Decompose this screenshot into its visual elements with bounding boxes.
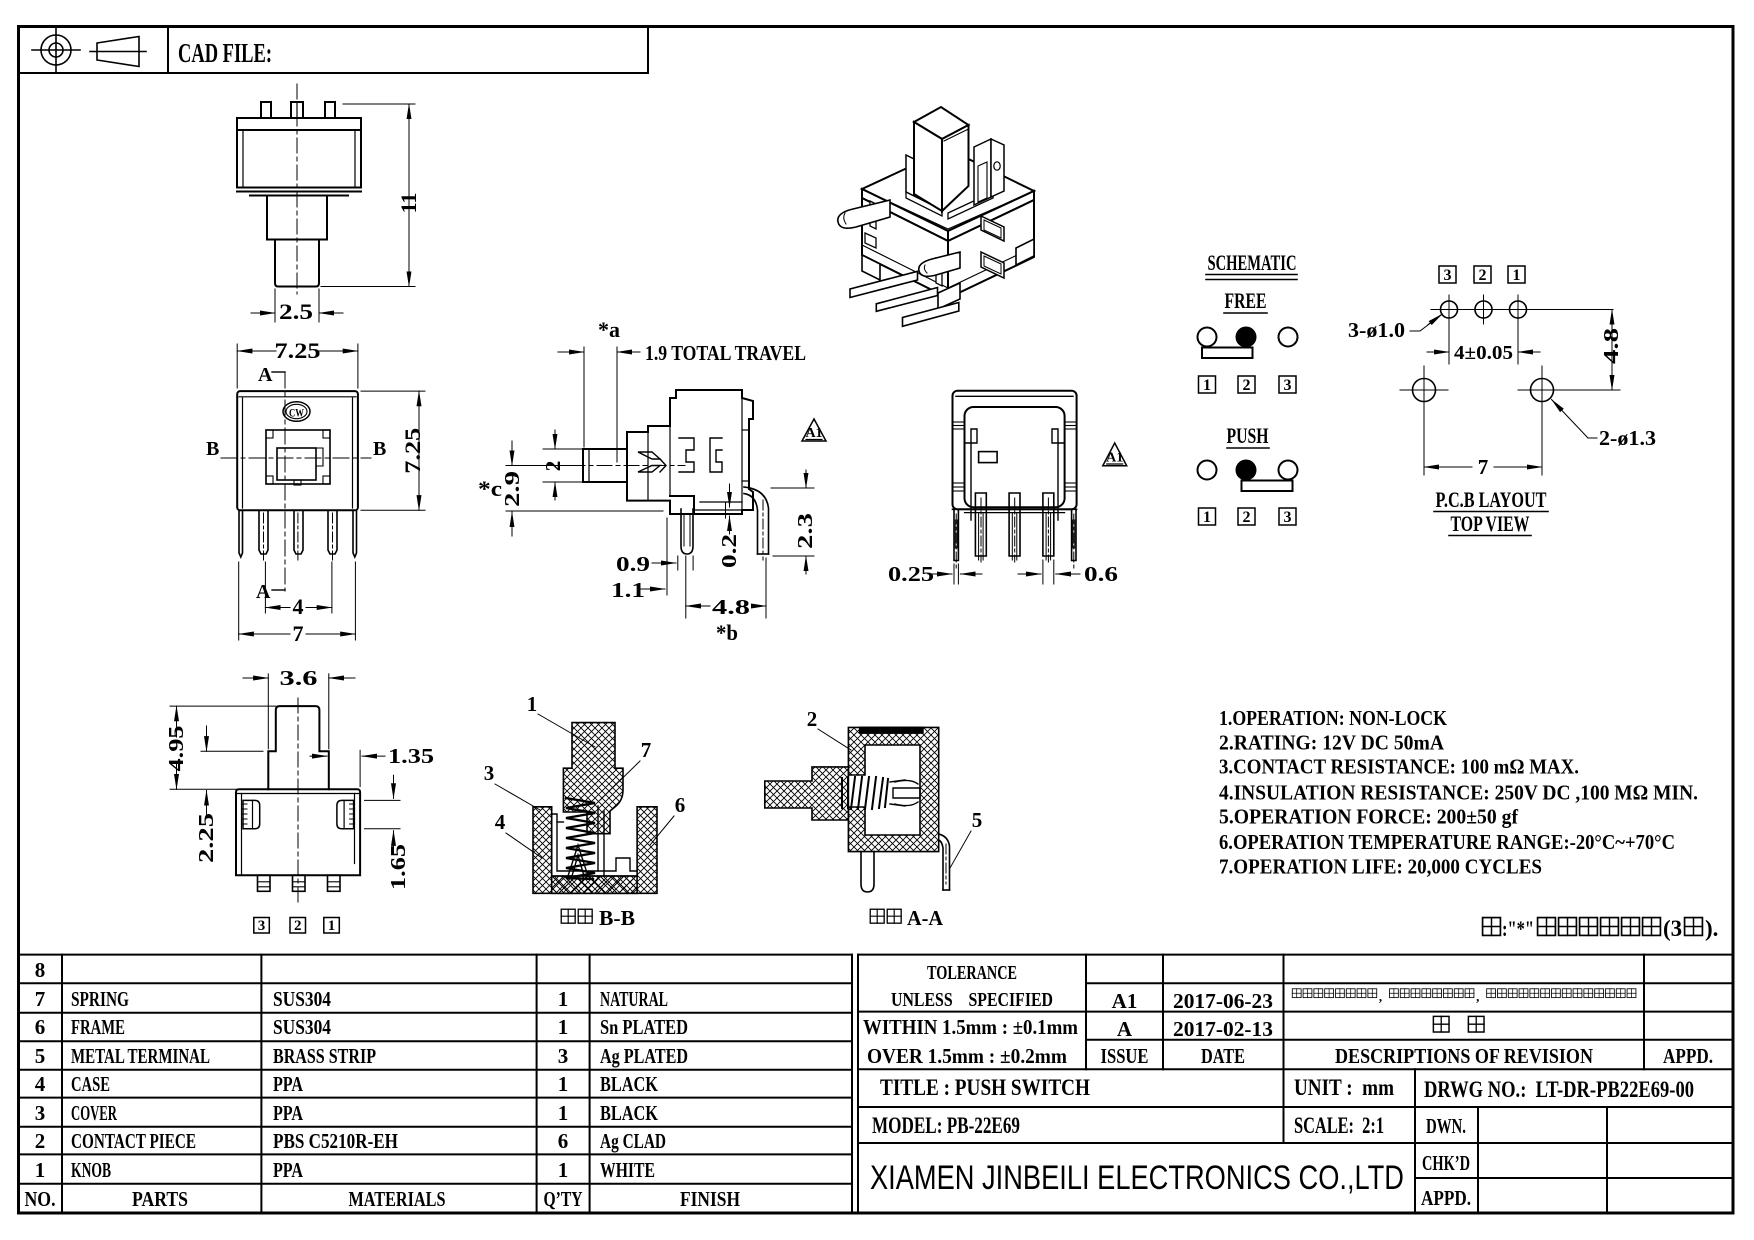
svg-text:Ag CLAD: Ag CLAD — [600, 1129, 666, 1153]
svg-text:METAL TERMINAL: METAL TERMINAL — [71, 1044, 210, 1068]
svg-text:2017-02-13: 2017-02-13 — [1173, 1017, 1273, 1041]
view1 centerline — [296, 84, 298, 294]
dimension 2.9 — [506, 441, 578, 536]
svg-text:7: 7 — [35, 987, 46, 1011]
svg-text:A: A — [1117, 1017, 1133, 1041]
svg-text:2.RATING: 12V DC 50mA: 2.RATING: 12V DC 50mA — [1219, 731, 1444, 755]
pcb pad numbers — [1439, 266, 1525, 283]
dimension 1.35 — [310, 750, 385, 786]
dimension 7 — [239, 562, 356, 640]
specification notes — [1219, 706, 1698, 878]
svg-text:SUS304: SUS304 — [273, 987, 331, 1011]
svg-text:PPA: PPA — [273, 1072, 304, 1096]
svg-text:A: A — [256, 581, 271, 603]
section A-A caption — [870, 906, 944, 930]
section B-B cover walls — [552, 807, 637, 871]
isometric knob collar — [906, 155, 993, 219]
svg-text:1.35: 1.35 — [388, 744, 434, 768]
svg-text:NO.: NO. — [25, 1187, 56, 1211]
svg-text:A1: A1 — [1106, 451, 1123, 466]
svg-text:7.25: 7.25 — [400, 428, 425, 474]
svg-text:1: 1 — [558, 1101, 569, 1125]
svg-text:5: 5 — [35, 1044, 46, 1068]
view2 CW logo — [283, 402, 310, 422]
svg-text:1: 1 — [558, 1015, 569, 1039]
svg-text:DATE: DATE — [1201, 1044, 1245, 1068]
svg-text:FREE: FREE — [1225, 288, 1267, 313]
schematic FREE label — [1224, 288, 1267, 313]
svg-text:ISSUE: ISSUE — [1101, 1044, 1149, 1068]
callout 6 — [650, 793, 685, 845]
dimension 11 — [321, 104, 415, 287]
view4 small window — [979, 452, 998, 463]
section A-A bent pin — [939, 834, 950, 890]
svg-text:BLACK: BLACK — [600, 1101, 659, 1125]
section A-A contact fingers — [893, 780, 920, 805]
callout 2 — [807, 707, 851, 750]
dimension 7.25 top — [237, 344, 358, 388]
view3 side body — [627, 390, 753, 514]
svg-text:2: 2 — [1243, 377, 1251, 394]
svg-text:4: 4 — [495, 810, 506, 834]
svg-text:FRAME: FRAME — [71, 1015, 125, 1039]
svg-text:2.9: 2.9 — [500, 471, 524, 507]
svg-text::"*": :"*" — [1502, 916, 1534, 941]
view2 pins — [239, 510, 357, 557]
isometric left face slots — [865, 201, 942, 286]
isometric right face windows — [981, 216, 1004, 278]
view3 front pin — [681, 509, 693, 554]
svg-text:1: 1 — [35, 1158, 46, 1182]
svg-text:3: 3 — [1284, 377, 1292, 394]
svg-text:A-A: A-A — [907, 906, 944, 930]
isometric feet — [862, 239, 1034, 309]
svg-text:(3: (3 — [1663, 916, 1682, 941]
pcb large holes 2-dia1.3 — [1413, 379, 1554, 402]
svg-text:FINISH: FINISH — [680, 1187, 740, 1211]
svg-text:NATURAL: NATURAL — [600, 987, 668, 1011]
section A-A bottom pin — [861, 852, 874, 892]
label 3-dia1.0 with leader — [1348, 314, 1442, 342]
svg-text:CHK’D: CHK’D — [1422, 1151, 1470, 1175]
pcb small holes 3-dia1.0 — [1441, 301, 1527, 318]
schematic PUSH label — [1227, 423, 1270, 448]
view5 knob rear — [268, 706, 329, 789]
label 2-dia1.3 with leader — [1552, 400, 1657, 451]
svg-text:WITHIN 1.5mm : ±0.1mm: WITHIN 1.5mm : ±0.1mm — [863, 1015, 1078, 1039]
title block grid — [858, 955, 1733, 1213]
dimension 0.6 — [1018, 560, 1080, 584]
svg-text:3: 3 — [1284, 509, 1292, 526]
dimension 2.5 — [251, 289, 343, 322]
schematic FREE contacts — [1198, 328, 1298, 359]
dimension 2.3 — [771, 470, 814, 574]
svg-text:1: 1 — [328, 918, 336, 934]
section B-B caption — [561, 906, 635, 930]
svg-text:BRASS STRIP: BRASS STRIP — [273, 1044, 376, 1068]
isometric flat pins — [850, 271, 959, 326]
svg-text:7: 7 — [641, 738, 652, 762]
svg-text:B-B: B-B — [599, 906, 635, 930]
view4 bottom seam — [953, 509, 1077, 512]
svg-text:5: 5 — [972, 808, 983, 832]
dimension 4.8 — [1556, 310, 1620, 391]
view2 front body — [237, 391, 358, 510]
schematic PUSH terminal numbers — [1199, 508, 1297, 525]
dimension 4.95 — [170, 706, 276, 789]
view5 side pockets — [242, 800, 355, 828]
section A-A body ring (hatched) — [848, 727, 938, 851]
section B-B knob (hatched) — [563, 723, 623, 834]
svg-text:7.OPERATION LIFE: 20,000 CYCLE: 7.OPERATION LIFE: 20,000 CYCLES — [1219, 854, 1542, 878]
svg-text:1: 1 — [1513, 267, 1521, 284]
isometric bent pin upper — [838, 200, 890, 228]
svg-text:4.INSULATION RESISTANCE: 250V: 4.INSULATION RESISTANCE: 250V DC ,100 MΩ… — [1219, 780, 1698, 804]
svg-text:7.25: 7.25 — [275, 338, 321, 363]
svg-text:CASE: CASE — [71, 1072, 110, 1096]
svg-text:PPA: PPA — [273, 1101, 304, 1125]
svg-text:CAD FILE:: CAD FILE: — [178, 38, 272, 68]
svg-text:PARTS: PARTS — [132, 1187, 188, 1211]
svg-text:2-ø1.3: 2-ø1.3 — [1599, 426, 1656, 450]
view4 inner latch steps — [965, 429, 1065, 520]
view1 body outline — [237, 102, 361, 287]
svg-text:2: 2 — [1479, 267, 1487, 284]
svg-text:CW: CW — [289, 406, 304, 420]
svg-text:UNIT : mm: UNIT : mm — [1294, 1075, 1394, 1100]
svg-text:1: 1 — [527, 692, 538, 716]
svg-text:2.3: 2.3 — [793, 513, 817, 549]
isometric body left face — [862, 198, 948, 298]
section B-B spring — [566, 798, 595, 879]
svg-text:*b: *b — [716, 620, 738, 645]
svg-text:11: 11 — [396, 193, 421, 214]
svg-text:3: 3 — [1444, 267, 1452, 284]
svg-text:0.25: 0.25 — [888, 562, 934, 586]
svg-text:2: 2 — [807, 707, 818, 731]
svg-text:4.8: 4.8 — [1599, 328, 1623, 364]
dimension 3.6 — [243, 674, 355, 749]
svg-text:OVER 1.5mm : ±0.2mm: OVER 1.5mm : ±0.2mm — [867, 1044, 1067, 1068]
view4 rear body — [953, 391, 1077, 510]
svg-text:7: 7 — [1478, 455, 1489, 479]
svg-text:PUSH: PUSH — [1227, 423, 1269, 448]
dimension 2 — [543, 430, 584, 500]
svg-text:2017-06-23: 2017-06-23 — [1173, 989, 1273, 1013]
section B-B contact dome — [568, 806, 604, 876]
revision table text — [1101, 989, 1714, 1068]
view5 terminal numbers — [254, 918, 339, 934]
svg-text:TITLE : PUSH SWITCH: TITLE : PUSH SWITCH — [880, 1075, 1090, 1100]
isometric frame bracket — [974, 139, 1004, 205]
section A-A knob shaft (hatched) — [765, 767, 849, 820]
svg-text:PBS C5210R-EH: PBS C5210R-EH — [273, 1129, 398, 1153]
label *a — [598, 317, 620, 342]
dimension 7 pcb — [1424, 466, 1542, 468]
company name — [870, 1159, 1404, 1197]
CJK note right — [1483, 916, 1719, 941]
svg-text:SPRING: SPRING — [71, 987, 129, 1011]
svg-text:1: 1 — [1203, 377, 1211, 394]
svg-text:*a: *a — [598, 317, 620, 342]
svg-text:0.6: 0.6 — [1084, 562, 1118, 586]
svg-text:3-ø1.0: 3-ø1.0 — [1348, 318, 1405, 342]
svg-text:1: 1 — [558, 987, 569, 1011]
pcb layout caption — [1434, 487, 1548, 536]
dimension 0.25 — [928, 564, 982, 584]
svg-text:6.OPERATION TEMPERATURE RANGE:: 6.OPERATION TEMPERATURE RANGE:-20°C~+70°… — [1219, 830, 1675, 854]
title strip top-left — [19, 27, 649, 74]
view5 pins — [258, 875, 341, 891]
dimension 1.1 — [641, 588, 665, 590]
schematic title — [1206, 250, 1297, 280]
svg-text:TOP VIEW: TOP VIEW — [1451, 511, 1530, 536]
svg-text:MATERIALS: MATERIALS — [349, 1187, 446, 1211]
view3 bottom reference line — [506, 502, 742, 511]
dimension 4 — [265, 562, 332, 613]
isometric body right face — [948, 200, 1034, 298]
svg-text:3: 3 — [35, 1101, 46, 1125]
svg-text:3: 3 — [484, 761, 495, 785]
svg-text:UNLESS SPECIFIED: UNLESS SPECIFIED — [891, 989, 1053, 1011]
section line A-A vertical — [272, 372, 285, 591]
svg-text:MODEL: PB-22E69: MODEL: PB-22E69 — [872, 1113, 1020, 1138]
svg-text:XIAMEN JINBEILI ELECTRONICS CO: XIAMEN JINBEILI ELECTRONICS CO.,LTD — [870, 1159, 1404, 1197]
isometric plate rim — [862, 189, 1034, 241]
dimension 2.25 — [201, 726, 263, 814]
view5 centerline — [297, 698, 299, 905]
svg-text:SCALE: 2:1: SCALE: 2:1 — [1294, 1113, 1384, 1138]
parts table text — [25, 958, 741, 1211]
svg-text:6: 6 — [558, 1129, 569, 1153]
svg-text:A1: A1 — [805, 426, 822, 441]
svg-text:3.CONTACT RESISTANCE: 100 mΩ M: 3.CONTACT RESISTANCE: 100 mΩ MAX. — [1219, 755, 1579, 779]
svg-text:P.C.B LAYOUT: P.C.B LAYOUT — [1436, 487, 1547, 512]
revision A1 description CJK — [1292, 989, 1636, 1004]
view3 knob — [583, 449, 666, 482]
svg-text:APPD.: APPD. — [1421, 1186, 1471, 1210]
revision A description CJK (first edition) — [1433, 1016, 1484, 1032]
view4 side rail notches — [954, 422, 1076, 491]
svg-text:1.9 TOTAL TRAVEL: 1.9 TOTAL TRAVEL — [645, 341, 806, 365]
svg-text:1.OPERATION: NON-LOCK: 1.OPERATION: NON-LOCK — [1219, 706, 1447, 730]
svg-text:3: 3 — [258, 918, 266, 934]
dimension 4.8 — [686, 556, 766, 618]
view2 inner window — [266, 430, 330, 485]
svg-text:4: 4 — [35, 1072, 46, 1096]
svg-text:Sn PLATED: Sn PLATED — [600, 1015, 688, 1039]
isometric bent pin middle — [919, 252, 960, 276]
svg-text:1: 1 — [558, 1072, 569, 1096]
A1 revision triangle view3 — [802, 419, 826, 441]
callout 1 — [527, 692, 595, 747]
svg-text:B: B — [206, 438, 219, 460]
dimension 4±0.05 — [1427, 351, 1540, 353]
svg-text:2: 2 — [35, 1129, 46, 1153]
svg-text:KNOB: KNOB — [71, 1158, 111, 1182]
svg-text:DESCRIPTIONS OF REVISION: DESCRIPTIONS OF REVISION — [1335, 1044, 1593, 1068]
CAD FILE label — [178, 38, 272, 68]
svg-text:0.9: 0.9 — [616, 552, 650, 576]
view3 bent pin — [744, 487, 769, 560]
svg-text:6: 6 — [35, 1015, 46, 1039]
dimension 7.25 right — [361, 391, 425, 510]
view3 centerline — [570, 465, 685, 467]
callout 4 — [495, 810, 542, 858]
svg-text:WHITE: WHITE — [600, 1158, 655, 1182]
svg-text:7: 7 — [293, 621, 304, 646]
svg-text:8: 8 — [35, 958, 46, 982]
svg-text:6: 6 — [675, 793, 686, 817]
projection symbol cone — [90, 37, 146, 67]
svg-text:A: A — [258, 364, 273, 386]
svg-text:4.95: 4.95 — [164, 726, 188, 772]
svg-text:2: 2 — [1243, 509, 1251, 526]
svg-text:B: B — [373, 438, 386, 460]
svg-text:,: , — [1476, 989, 1479, 1004]
svg-text:DRWG NO.: LT-DR-PB22E69-00: DRWG NO.: LT-DR-PB22E69-00 — [1424, 1077, 1694, 1102]
svg-text:,: , — [1379, 989, 1382, 1004]
svg-text:CONTACT PIECE: CONTACT PIECE — [71, 1129, 196, 1153]
callout 5 — [950, 808, 982, 868]
svg-text:1.1: 1.1 — [611, 578, 645, 602]
svg-text:2: 2 — [294, 918, 302, 934]
svg-text:COVER: COVER — [71, 1101, 118, 1125]
svg-text:2.25: 2.25 — [194, 813, 218, 863]
svg-text:PPA: PPA — [273, 1158, 304, 1182]
svg-text:TOLERANCE: TOLERANCE — [927, 962, 1017, 984]
isometric bottom seam — [862, 245, 1034, 288]
view5 body rear — [236, 789, 360, 875]
svg-text:5.OPERATION FORCE: 200±50 gf: 5.OPERATION FORCE: 200±50 gf — [1219, 805, 1519, 829]
svg-text:APPD.: APPD. — [1663, 1044, 1713, 1068]
svg-text:SCHEMATIC: SCHEMATIC — [1208, 250, 1297, 275]
A1 revision triangle view4 — [1103, 443, 1127, 466]
svg-text:*c: *c — [478, 476, 502, 501]
svg-text:DWN.: DWN. — [1426, 1114, 1466, 1138]
dimension 0.2 — [726, 484, 730, 534]
isometric body top plate — [862, 149, 1034, 231]
schematic PUSH contacts — [1198, 461, 1298, 492]
svg-text:A1: A1 — [1112, 989, 1138, 1013]
section A-A spring coil — [842, 777, 905, 809]
svg-text:1: 1 — [558, 1158, 569, 1182]
dimension 1.9 total travel — [558, 347, 640, 462]
section line B-B — [221, 457, 371, 459]
svg-text:3.6: 3.6 — [280, 666, 318, 690]
parts table grid — [19, 955, 859, 1213]
callout 3 — [484, 761, 540, 810]
projection symbol circle — [32, 27, 80, 73]
svg-text:3: 3 — [558, 1044, 569, 1068]
svg-text:1.65: 1.65 — [386, 844, 410, 890]
svg-text:4±0.05: 4±0.05 — [1454, 342, 1513, 364]
svg-text:Q’TY: Q’TY — [544, 1187, 583, 1211]
svg-text:Ag PLATED: Ag PLATED — [600, 1044, 688, 1068]
tolerance block text — [891, 962, 1053, 1011]
svg-text:).: ). — [1705, 916, 1718, 941]
dimension 1.65 — [365, 775, 401, 853]
svg-text:4.8: 4.8 — [712, 595, 750, 619]
dimension 0.9 — [652, 518, 693, 595]
schematic FREE terminal numbers — [1199, 376, 1297, 393]
svg-text:2.5: 2.5 — [279, 299, 313, 324]
section B-B case (hatched) — [533, 807, 657, 894]
callout 7 — [600, 738, 651, 800]
title model rows — [872, 1075, 1694, 1138]
svg-text:1: 1 — [1203, 509, 1211, 526]
svg-text:SUS304: SUS304 — [273, 1015, 331, 1039]
svg-text:4: 4 — [293, 594, 304, 619]
svg-text:0.2: 0.2 — [717, 534, 741, 568]
svg-text:BLACK: BLACK — [600, 1072, 659, 1096]
isometric knob box — [914, 107, 969, 211]
view4 pins — [954, 493, 1076, 561]
